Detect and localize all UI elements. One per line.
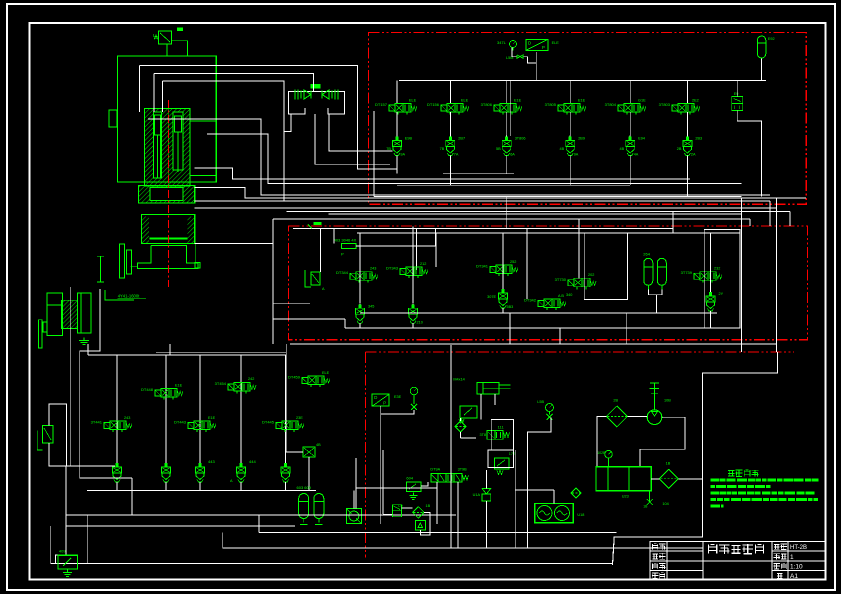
- relief valve (pilot): [460, 406, 477, 418]
- svg-text:E1E: E1E: [208, 416, 216, 420]
- svg-text:2B9: 2B9: [578, 137, 585, 141]
- svg-text:2B3: 2B3: [695, 137, 702, 141]
- check valve cap (filled): [310, 84, 320, 89]
- svg-text:3T806: 3T806: [481, 102, 493, 107]
- svg-text:252: 252: [510, 260, 516, 264]
- svg-text:3T804: 3T804: [605, 102, 617, 107]
- wire accumulator stem: [761, 58, 763, 80]
- svg-text:111: 111: [498, 425, 505, 430]
- cartridge valve 2B9: [569, 136, 571, 141]
- valve 3046 body: [342, 243, 356, 248]
- svg-text:HT-2B: HT-2B: [790, 545, 807, 551]
- wire cartridge 4 outlet: [569, 156, 571, 186]
- level gauge on tank: [605, 450, 613, 458]
- wire lower bus A (box1): [443, 173, 514, 175]
- svg-text:DT344: DT344: [336, 270, 349, 275]
- wire transducer drop: [380, 406, 382, 524]
- svg-text:243: 243: [124, 416, 130, 420]
- svg-text:1B: 1B: [426, 504, 431, 508]
- svg-text:403 3046 4X: 403 3046 4X: [334, 238, 357, 243]
- cartridge valve 3T806: [506, 136, 508, 141]
- technical requirements title: [728, 470, 734, 472]
- wire double drop at DT343 (box2): [415, 229, 417, 271]
- wire bottom line y=515: [66, 514, 456, 516]
- wire bus drop to valve 3T804: [629, 81, 631, 104]
- svg-text:444: 444: [249, 459, 256, 464]
- pipe flange step line: [195, 168, 690, 179]
- svg-text:U23: U23: [622, 495, 629, 499]
- wire bus right end up: [285, 344, 287, 355]
- check box valve 4B: [303, 447, 315, 457]
- svg-text:9A: 9A: [574, 153, 579, 157]
- pipe press line B: [154, 73, 313, 91]
- wire bus drop to valve 3T805: [569, 81, 571, 104]
- svg-text:4Y41-1600t: 4Y41-1600t: [118, 294, 140, 299]
- cartridge valve 2B7: [449, 136, 451, 141]
- svg-text:2B: 2B: [677, 147, 682, 151]
- white box around valve 111: [491, 420, 513, 450]
- group top bus: [88, 354, 286, 356]
- svg-text:1B: 1B: [643, 505, 648, 509]
- wire ejector long vertical 2: [80, 289, 100, 478]
- svg-text:3T8: 3T8: [479, 433, 486, 437]
- wire cartridge 2 outlet: [449, 156, 451, 186]
- wire group bus up-left: [87, 344, 89, 355]
- svg-text:U18: U18: [577, 513, 584, 517]
- wire cylinder ports: [480, 394, 482, 420]
- wire group collector: [87, 489, 316, 491]
- title block h-lines: [650, 550, 703, 552]
- wire cartridge outlet group 2: [165, 482, 167, 490]
- svg-text:E1E: E1E: [514, 98, 522, 102]
- main manifold bus (box1): [399, 80, 766, 82]
- filter diamond small: [455, 421, 466, 432]
- wire collector below box2: [290, 343, 777, 345]
- cartridge valve group 1: [116, 462, 118, 467]
- svg-text:E9B: E9B: [405, 137, 413, 141]
- pump box with arrow: [415, 520, 425, 530]
- pipe check block center drop: [315, 114, 390, 164]
- pipe band line 4: [287, 211, 791, 213]
- wire verticals to collector: [359, 323, 361, 328]
- small pilot valve (box2 left): [311, 272, 320, 285]
- wire valve to cartridge 5: [629, 112, 631, 137]
- press frame right step lines: [190, 120, 216, 122]
- svg-text:E9: E9: [734, 92, 739, 96]
- pipe cylinder side port 1: [148, 119, 770, 195]
- svg-text:1:10: 1:10: [790, 564, 803, 571]
- press cylinder flange (hatched): [139, 186, 195, 204]
- technical requirements body line 3: [711, 492, 720, 495]
- svg-text:307E: 307E: [487, 295, 496, 299]
- pipe band line 3: [195, 207, 777, 209]
- press bracket link line: [131, 266, 138, 268]
- wire to check box: [286, 355, 303, 452]
- title block labels col2: [774, 543, 780, 545]
- press main cylinder body (hatched): [145, 109, 191, 186]
- title block labels col1: [652, 544, 654, 550]
- technical requirements body line 5: [711, 505, 721, 508]
- press port stub line: [195, 244, 197, 263]
- wire 3046 drop from bus: [333, 229, 335, 244]
- ejector cylinder left box: [47, 293, 63, 336]
- wire check U1A: [485, 470, 487, 488]
- svg-text:5B: 5B: [496, 147, 501, 151]
- svg-text:P: P: [341, 252, 344, 257]
- wire cartridge outlet group 3: [199, 482, 201, 490]
- svg-text:212: 212: [420, 262, 426, 266]
- svg-text:DT445: DT445: [262, 420, 275, 425]
- wire coupling stub: [353, 490, 355, 508]
- press left bracket plates: [120, 244, 125, 278]
- wire bottom line y=532.5: [259, 532, 617, 534]
- gear pump unit U18: [535, 503, 574, 522]
- wire bottom line y=547.8: [223, 547, 703, 549]
- wire accumulator stems (box2): [648, 289, 662, 294]
- wire y485 line: [356, 487, 437, 489]
- red dash-dot line (pump station left): [365, 352, 367, 558]
- wire cartridge 5 outlet: [629, 156, 631, 186]
- svg-text:U1A: U1A: [473, 493, 481, 497]
- pipe cylinder side port 2: [207, 134, 742, 184]
- title block outer: [650, 542, 825, 580]
- cartridge valve group 5: [285, 462, 287, 467]
- svg-text:7A: 7A: [454, 153, 459, 157]
- svg-text:4B: 4B: [560, 147, 565, 151]
- pressure transducer D/P: [526, 39, 548, 50]
- breather filled cap: [177, 28, 183, 32]
- left pilot valve body: [43, 425, 54, 443]
- wire pilot valve drop: [736, 81, 738, 97]
- wire valve to cartridge 2: [449, 112, 451, 137]
- svg-text:9A: 9A: [400, 153, 405, 157]
- svg-text:P: P: [542, 45, 545, 50]
- oil tank U23: [596, 467, 651, 491]
- check valve right: [337, 90, 339, 100]
- ejector cylinder middle (hatched): [62, 300, 78, 328]
- wire gear pump link: [553, 490, 555, 503]
- svg-text:104: 104: [662, 502, 668, 506]
- wire lower bus (box2): [360, 312, 717, 314]
- pipe check block to cartridge C1: [329, 114, 392, 151]
- svg-text:A B: A B: [558, 294, 564, 298]
- wire cartridge 6 outlet: [686, 156, 688, 197]
- svg-text:3T805: 3T805: [545, 102, 557, 107]
- svg-text:ELE: ELE: [552, 41, 560, 45]
- svg-text:A1: A1: [790, 573, 798, 580]
- bus line 1 (box2): [293, 228, 673, 230]
- white box around valve 17E: [488, 450, 514, 468]
- wire bus drop to valve DT156: [449, 81, 451, 104]
- svg-text:3T806: 3T806: [515, 137, 526, 141]
- press base step left: [105, 290, 134, 300]
- wire band into box2 drop (C3 leg): [506, 197, 508, 229]
- svg-text:3T739: 3T739: [681, 270, 693, 275]
- svg-text:ELE: ELE: [409, 98, 417, 102]
- wire accumulator base ticks: [300, 524, 308, 526]
- svg-text:DT9A: DT9A: [430, 468, 440, 472]
- svg-text:6A: 6A: [510, 153, 515, 157]
- wire vertical x=87.7: [87, 515, 89, 564]
- svg-text:7B: 7B: [440, 147, 445, 151]
- pipe beam port: [195, 242, 273, 244]
- wire lower bus C (box1): [374, 196, 742, 198]
- svg-text:4B: 4B: [316, 443, 321, 447]
- ejector cylinder left plate: [38, 320, 42, 348]
- svg-text:242: 242: [248, 377, 254, 381]
- wire cartridge outlet group 1: [116, 482, 118, 490]
- coupling square with circle: [346, 509, 361, 524]
- ejector cylinder right box: [77, 293, 90, 333]
- pipe press line C: [162, 81, 284, 201]
- technical requirements body line 1: [711, 479, 720, 482]
- pipe beam port branch: [273, 303, 310, 305]
- svg-text:P: P: [383, 401, 386, 406]
- svg-text:443: 443: [208, 459, 215, 464]
- svg-text:DT459: DT459: [288, 375, 301, 380]
- cartridge valve 210b: [412, 303, 414, 308]
- svg-text:5B3: 5B3: [507, 305, 514, 309]
- svg-text:1: 1: [790, 554, 794, 561]
- wire bowtie to transducer drop: [523, 57, 536, 63]
- svg-text:2B7: 2B7: [458, 137, 465, 141]
- wire left edge drop (box1): [373, 111, 375, 197]
- wire motor outlet loop: [640, 417, 685, 467]
- pipe band line 1 (with jog): [195, 187, 806, 198]
- press base foot: [137, 245, 198, 268]
- svg-text:E94: E94: [638, 137, 645, 141]
- pipe press drops to cylinder: [138, 66, 140, 113]
- wire cartridge outlet group 4: [240, 482, 242, 490]
- wire cartridge outlet group 5: [285, 482, 287, 490]
- wire cartridge 3 outlet: [506, 156, 508, 174]
- datum line symbol: [100, 256, 102, 282]
- white outline right group (box2): [704, 229, 740, 328]
- cartridge valve right (box2): [710, 291, 712, 296]
- accumulator 264 a: [644, 258, 653, 285]
- wire return filter link: [678, 478, 702, 480]
- wire band to box2 connectors: [789, 212, 791, 226]
- press frame left tab: [109, 110, 117, 127]
- pressure transducer 2 D/P: [372, 394, 389, 406]
- svg-text:3T9B: 3T9B: [458, 468, 468, 472]
- svg-text:604: 604: [406, 476, 413, 481]
- accumulator 609: [314, 494, 324, 519]
- wire left valve bottom link: [49, 465, 115, 467]
- bus line 2 (box2): [357, 232, 740, 234]
- wire right vertical 2: [776, 198, 778, 353]
- wire left drop to bottom: [65, 466, 67, 526]
- red dash-dot zone box 2 (middle valve manifold): [288, 226, 807, 340]
- svg-text:340: 340: [566, 293, 572, 297]
- wire group drop 3: [199, 355, 201, 465]
- svg-text:603 609: 603 609: [297, 485, 312, 490]
- red centerline of press cylinder (overlay): [167, 100, 169, 287]
- svg-text:3T803: 3T803: [659, 102, 671, 107]
- wire double drop at valve 3T806: [509, 81, 511, 137]
- svg-text:DT341: DT341: [476, 264, 489, 269]
- wire cartridge 1 outlet: [396, 156, 398, 174]
- wire gauge stem: [512, 48, 517, 57]
- svg-text:3T441: 3T441: [91, 420, 103, 425]
- press moving beam: [142, 215, 195, 244]
- wire group drop 1: [116, 355, 118, 465]
- wire long vertical mid: [450, 345, 452, 548]
- cartridge valve group 2: [165, 462, 167, 467]
- ejector cylinder ground symbol: [83, 338, 85, 341]
- red dash-dot zone box 1 (upper valve manifold): [369, 33, 807, 205]
- gauge (pump station): [410, 387, 418, 395]
- svg-text:4B: 4B: [620, 147, 625, 151]
- svg-text:G1E: G1E: [638, 98, 646, 102]
- check valve left: [294, 90, 296, 100]
- press cylinder inner rod details: [155, 115, 161, 135]
- wire transducer link: [381, 410, 414, 414]
- svg-text:23E: 23E: [296, 416, 303, 420]
- wire long vertical x515: [514, 450, 516, 548]
- pilot check valve block outline: [289, 91, 345, 101]
- pipe band line 2: [195, 200, 770, 202]
- svg-text:345: 345: [368, 304, 374, 308]
- accumulator E92: [757, 36, 766, 58]
- svg-text:3T454: 3T454: [215, 381, 227, 386]
- svg-text:2B: 2B: [613, 399, 618, 403]
- svg-text:2Y: 2Y: [719, 292, 724, 296]
- svg-text:243: 243: [370, 267, 376, 271]
- wire 3046 to bus: [356, 229, 435, 246]
- tank drain line: [649, 491, 651, 502]
- cartridge valve E9B: [396, 136, 398, 141]
- svg-text:2A: 2A: [691, 153, 696, 157]
- svg-text:1B: 1B: [666, 462, 671, 466]
- wire relief drop: [460, 418, 462, 421]
- oil level mark: [653, 383, 655, 410]
- wire lower bus B (box1): [397, 184, 630, 186]
- drawing area boundary step (right): [613, 352, 778, 565]
- wire pilot to accumulator leg: [737, 121, 761, 197]
- group top bus second line: [156, 351, 286, 353]
- svg-text:2E2: 2E2: [692, 98, 699, 102]
- ejector small port plate: [43, 322, 47, 332]
- wire right vertical 1: [741, 198, 743, 353]
- press cylinder centerline: [167, 109, 169, 186]
- suction filter (big diamond): [606, 406, 627, 427]
- wire transducer to bus: [535, 52, 537, 81]
- accumulator 264 b: [657, 258, 666, 285]
- wire bus drop to valve 3T803: [686, 81, 688, 104]
- svg-text:M4x14: M4x14: [453, 378, 464, 382]
- svg-text:E3E: E3E: [394, 395, 402, 399]
- wire bus drop to valve DT157: [396, 81, 398, 104]
- svg-text:210: 210: [417, 320, 423, 324]
- svg-text:DT342: DT342: [524, 298, 537, 303]
- pipe band line 6: [273, 218, 750, 220]
- svg-text:202: 202: [588, 273, 594, 277]
- technical requirements body line 2: [711, 485, 716, 488]
- svg-text:E92: E92: [768, 37, 775, 41]
- bowtie shutoff valve: [517, 55, 523, 59]
- wire filter-motor: [627, 415, 647, 417]
- wire valve to cartridge 1: [396, 112, 398, 137]
- bottom collector line: [51, 563, 613, 565]
- pipe press line A: [139, 66, 397, 169]
- pipe band line 5: [328, 213, 741, 215]
- wire group drop 4: [240, 355, 242, 465]
- svg-text:E1E: E1E: [175, 383, 183, 387]
- svg-text:10B: 10B: [664, 399, 671, 403]
- filter diamond (L9): [413, 507, 425, 519]
- pipe check block left drop: [284, 114, 291, 132]
- svg-text:264: 264: [643, 252, 650, 257]
- pipe beam vertical: [272, 219, 274, 344]
- wire relief drop: [50, 526, 52, 564]
- cartridge valve 210a: [359, 303, 361, 308]
- title text (drawing name): [708, 545, 710, 554]
- svg-text:347L: 347L: [497, 40, 507, 45]
- svg-text:ELE: ELE: [322, 371, 330, 375]
- svg-text:ELE: ELE: [461, 98, 469, 102]
- wire DT9A ports: [436, 482, 438, 524]
- wire valve to cartridge 6: [686, 112, 688, 137]
- press port marker square: [195, 263, 200, 268]
- svg-text:4A: 4A: [634, 153, 639, 157]
- wire filter inlet from left: [597, 416, 606, 466]
- svg-text:DT448: DT448: [141, 387, 154, 392]
- wire drops in box2: [320, 229, 322, 273]
- svg-text:102B: 102B: [597, 451, 606, 455]
- wire group drop 2: [165, 355, 167, 465]
- press frame outline: [117, 56, 216, 182]
- wire lower bus 2 (box2): [345, 327, 704, 329]
- return filter (right diamond): [659, 469, 678, 488]
- wire group drop 5: [285, 355, 287, 465]
- svg-text:232: 232: [714, 267, 720, 271]
- wire step near relief 409: [56, 555, 67, 564]
- white box around left valve: [49, 404, 67, 466]
- wire valve to cartridge 4: [569, 112, 571, 137]
- svg-text:409: 409: [59, 549, 66, 554]
- cartridge valve group 4: [240, 462, 242, 467]
- red centerline of press cylinder: [167, 100, 169, 287]
- svg-text:DT156: DT156: [427, 102, 440, 107]
- red dash-dot line (pump station top): [366, 351, 794, 353]
- wire bus drop to valve 3T806: [506, 81, 508, 104]
- pilot valve E9 (small): [732, 97, 743, 104]
- svg-text:E1E: E1E: [578, 98, 586, 102]
- wire ejector long vertical 1: [69, 287, 71, 466]
- breather stem lines: [166, 44, 168, 56]
- svg-text:DT443: DT443: [174, 420, 187, 425]
- wire gauge L5B drop: [527, 418, 551, 548]
- cartridge valve 2B3: [686, 136, 688, 141]
- svg-text:DT343: DT343: [386, 266, 399, 271]
- cartridge valve 307E: [502, 288, 504, 293]
- wire valve to cartridge 3: [506, 112, 508, 137]
- filter above gear pump: [571, 488, 581, 498]
- svg-text:DT157: DT157: [375, 102, 388, 107]
- electric motor circle: [647, 410, 662, 425]
- wire L9 links: [383, 513, 392, 515]
- wire relief 604 link: [421, 482, 428, 486]
- wire verticals bottom mesh: [131, 478, 133, 515]
- white loop box right of 3T730: [584, 233, 627, 300]
- svg-text:L5B: L5B: [537, 400, 544, 404]
- breather valve on press top: [159, 31, 172, 44]
- title block v-lines: [666, 542, 668, 580]
- wire bottom sub-collector: [66, 525, 295, 527]
- svg-text:3T730: 3T730: [555, 277, 567, 282]
- cartridge valve group 3: [199, 462, 201, 467]
